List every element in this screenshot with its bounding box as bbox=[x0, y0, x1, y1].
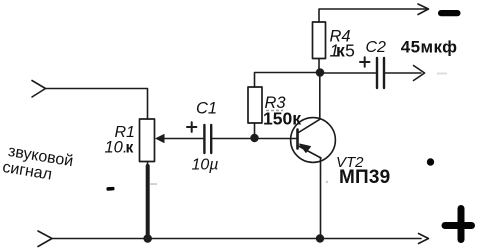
label R3 underline mark bbox=[266, 110, 283, 112]
C1 plus sign bbox=[187, 122, 196, 132]
input terminal bottom bbox=[38, 231, 52, 247]
label C1 value 10µ bbox=[192, 157, 219, 174]
label C1 bbox=[196, 100, 217, 118]
bottom rail wire bbox=[52, 238, 421, 240]
stray dot mark bbox=[427, 158, 434, 165]
label C2 bbox=[366, 39, 387, 56]
output arrow mid bbox=[414, 66, 425, 81]
output arrow bottom rail bbox=[419, 234, 429, 244]
label VT2 bbox=[336, 154, 364, 171]
label МП39 bbox=[339, 167, 390, 188]
faint dot left of МП39 bbox=[326, 181, 328, 183]
junction dot R1/bottom rail bbox=[143, 234, 152, 243]
svg-text:45мкф: 45мкф bbox=[401, 38, 458, 57]
label R3 bbox=[265, 94, 287, 112]
wire R4 top to output bbox=[318, 59, 320, 73]
wire R3 top to collector node bbox=[255, 73, 320, 88]
capacitor C2 plates bbox=[377, 58, 384, 88]
svg-text:10µ: 10µ bbox=[192, 157, 219, 174]
wire collector node to C2 bbox=[320, 72, 376, 74]
junction dot collector node bbox=[316, 68, 325, 77]
transistor VT2 body bbox=[291, 118, 336, 163]
wire R1 bottom thin bbox=[147, 162, 149, 169]
wire collector bbox=[319, 73, 321, 120]
svg-text:C1: C1 bbox=[196, 100, 217, 118]
svg-text:C2: C2 bbox=[366, 39, 387, 56]
wire R4 to top rail bbox=[319, 9, 427, 22]
faint smudge right of C2 arrow bbox=[437, 73, 447, 75]
minus terminal bbox=[438, 10, 461, 16]
label R3 value 150к bbox=[263, 109, 301, 129]
wire top input to R1 bbox=[46, 89, 148, 120]
label R1 value 10.к bbox=[105, 139, 134, 157]
wire R3 bottom bbox=[254, 123, 256, 138]
resistor R1 body bbox=[140, 119, 155, 162]
svg-text:10.к: 10.к bbox=[105, 139, 134, 157]
label R4 bbox=[330, 28, 351, 46]
svg-text:150к: 150к bbox=[263, 109, 301, 129]
plus terminal bbox=[445, 209, 472, 240]
svg-text:МП39: МП39 bbox=[339, 167, 390, 188]
label R4 value 1к5 bbox=[330, 41, 355, 61]
label R1 bbox=[115, 124, 135, 141]
junction dot R3/base bbox=[250, 134, 258, 142]
output arrow top rail bbox=[418, 4, 429, 15]
wire emitter bbox=[320, 158, 322, 239]
input terminal top bbox=[32, 81, 46, 98]
stray dash mark bbox=[106, 187, 114, 191]
label C2 value 45мкф bbox=[401, 38, 458, 57]
label звуковой сигнал bbox=[1, 142, 74, 186]
resistor R4 body bbox=[313, 22, 326, 59]
capacitor C1 plates bbox=[204, 125, 211, 153]
svg-text:1к5: 1к5 bbox=[330, 41, 355, 61]
resistor R3 body bbox=[248, 87, 262, 123]
junction dot emitter/bottom rail bbox=[316, 234, 324, 242]
R1 wiper arrow bbox=[155, 134, 165, 143]
wire R1 wiper to C1 bbox=[162, 138, 204, 140]
wire C1 to base bbox=[212, 138, 297, 140]
wire R1 bottom thick bbox=[146, 166, 150, 238]
C2 plus sign bbox=[360, 57, 370, 67]
wire C2 to output bbox=[385, 72, 421, 74]
faint tick on R1 lead bbox=[150, 183, 157, 185]
